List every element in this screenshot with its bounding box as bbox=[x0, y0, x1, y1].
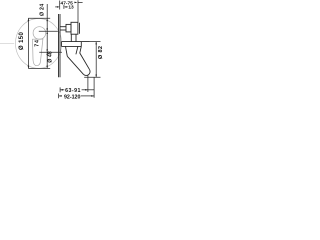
escutcheon circle bbox=[15, 19, 61, 69]
dim1 right arrow bbox=[74, 2, 77, 4]
slab bbox=[61, 41, 89, 43]
step lines bbox=[60, 26, 66, 28]
tick C bbox=[39, 51, 62, 53]
dim2 arrows bbox=[57, 6, 60, 8]
82 arrows bbox=[95, 42, 97, 45]
82 bottom tick bbox=[84, 76, 100, 78]
top dim tick 2 + extension bbox=[77, 0, 79, 22]
chain line bbox=[46, 4, 48, 18]
D1 arrows bbox=[60, 89, 63, 91]
svg-text:Ø 24: Ø 24 bbox=[40, 4, 46, 16]
lever bottom diagonal bbox=[67, 56, 83, 74]
joint line bbox=[76, 46, 78, 54]
ext 94 bbox=[93, 77, 95, 98]
ext lever tip bbox=[87, 76, 89, 93]
sleeve circle bbox=[33, 27, 46, 40]
wall line 2 bbox=[59, 14, 61, 77]
svg-text:74: 74 bbox=[35, 39, 41, 47]
top dim tick 1 bbox=[59, 1, 61, 10]
D1 line segs bbox=[60, 89, 64, 91]
svg-text:92-120: 92-120 bbox=[64, 94, 81, 100]
chain B2-C arrows bbox=[46, 31, 48, 34]
dim2 tick bbox=[63, 5, 65, 9]
lever top diagonal bbox=[80, 46, 90, 69]
82 top tick bbox=[90, 41, 101, 43]
lever front bbox=[33, 39, 43, 66]
svg-text:13: 13 bbox=[68, 5, 74, 11]
chain A-B2 arrows bbox=[46, 18, 48, 21]
chain C-D arrows bbox=[46, 52, 48, 55]
sleeve left edge bbox=[66, 46, 68, 56]
neck bbox=[70, 34, 72, 41]
flange line bbox=[79, 23, 81, 34]
svg-text:Ø 48: Ø 48 bbox=[47, 51, 53, 63]
D1 left tick bbox=[59, 87, 61, 92]
wall line 1 bbox=[58, 14, 60, 77]
82 dim line bbox=[95, 42, 97, 78]
tip arc bbox=[83, 70, 90, 76]
D2 arrows bbox=[59, 95, 62, 97]
D2 line segs bbox=[59, 95, 62, 97]
svg-text:63-91: 63-91 bbox=[65, 88, 81, 94]
tick B2 bbox=[39, 30, 58, 32]
centerline left bbox=[0, 42, 14, 44]
dim2 arrows tails bbox=[55, 6, 57, 8]
dim1 leader bbox=[78, 1, 83, 3]
D2 left tick bbox=[58, 94, 60, 99]
svg-text:Ø 150: Ø 150 bbox=[19, 32, 25, 50]
svg-text:Ø 82: Ø 82 bbox=[98, 46, 104, 59]
dia150 dim line bbox=[27, 18, 29, 68]
small box bbox=[66, 24, 71, 32]
dia150 arrows bbox=[28, 18, 30, 21]
tick D bbox=[28, 67, 50, 69]
tick A bbox=[28, 17, 50, 19]
large box bbox=[71, 22, 78, 34]
